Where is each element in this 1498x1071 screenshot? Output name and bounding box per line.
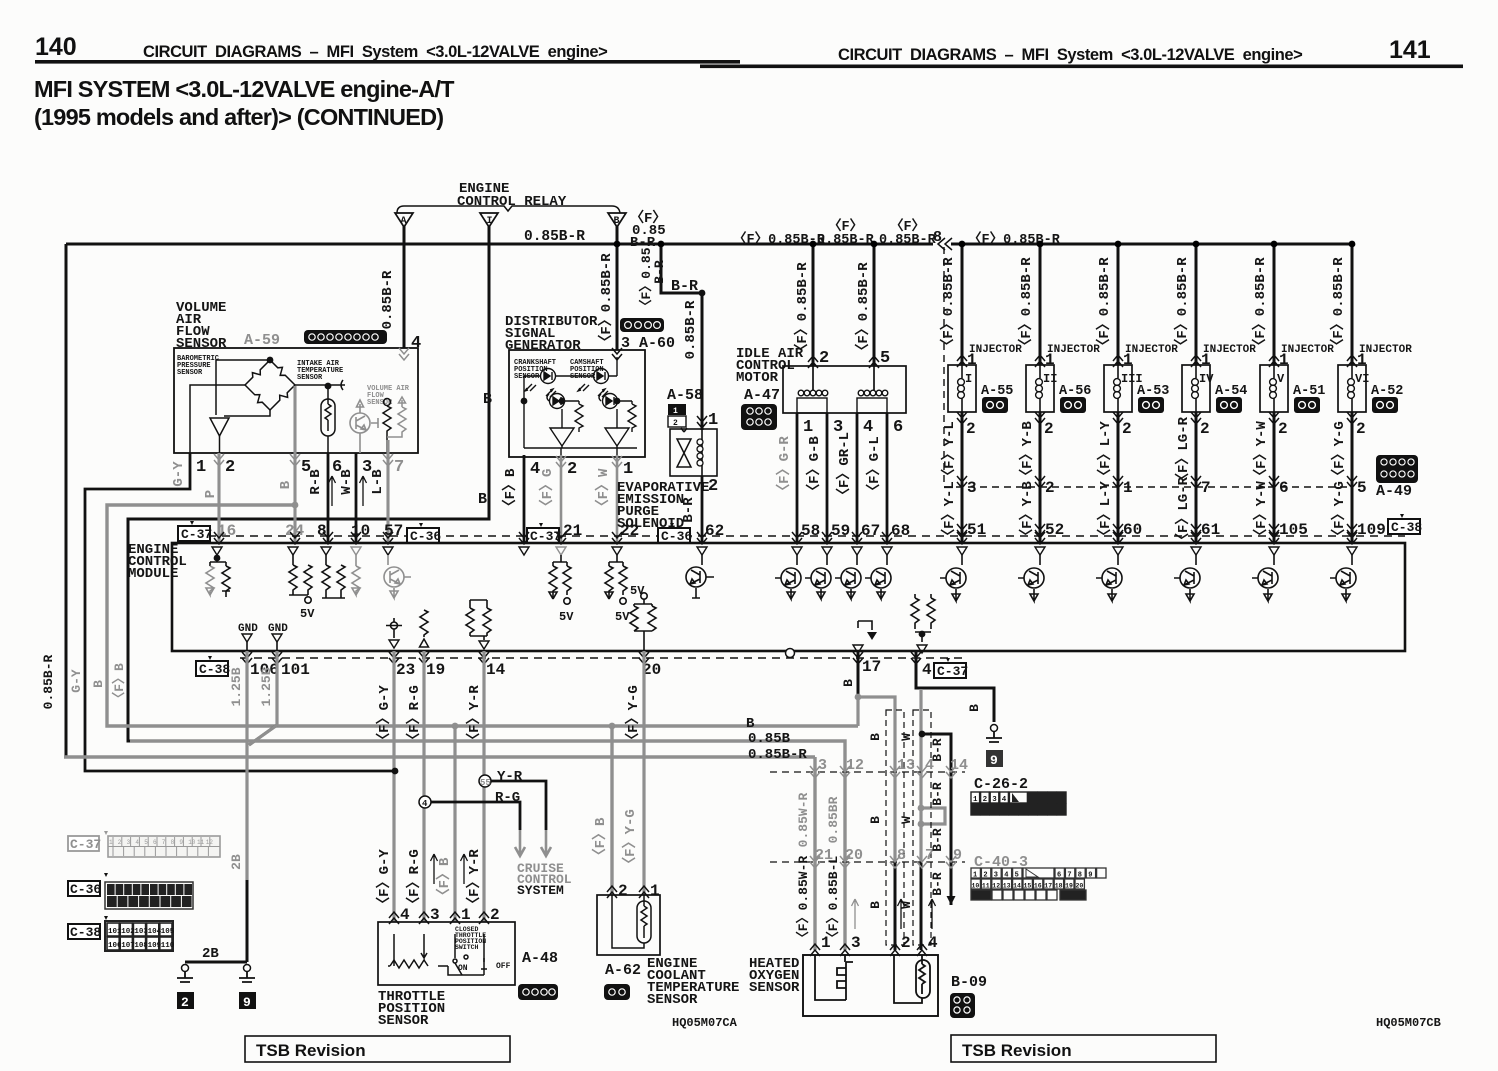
svg-text:C-38: C-38 [1391,520,1422,535]
svg-text:5V: 5V [300,607,315,621]
svg-text:C-26-2: C-26-2 [974,776,1028,793]
svg-text:A-47: A-47 [744,387,780,404]
svg-text:13: 13 [1003,883,1011,890]
svg-text:B-09: B-09 [951,974,987,991]
svg-text:3: 3 [818,757,827,774]
svg-text:VI: VI [1355,372,1369,386]
svg-text:0.85B-R: 0.85B-R [41,654,56,709]
svg-text:G-Y: G-Y [69,669,84,693]
svg-text:102: 102 [121,928,135,936]
svg-text:2: 2 [983,872,987,880]
svg-text:〈F〉0.85B-R: 〈F〉0.85B-R [1174,257,1191,353]
svg-text:108: 108 [134,942,148,950]
svg-text:0.85B-R: 0.85B-R [879,233,937,248]
svg-text:3: 3 [851,934,861,952]
svg-text:5: 5 [880,349,890,368]
svg-text:W-B: W-B [339,469,355,495]
svg-text:5V: 5V [559,610,574,624]
svg-text:A-55: A-55 [981,384,1013,399]
svg-text:1: 1 [803,418,813,437]
svg-text:10: 10 [351,522,370,540]
svg-text:1: 1 [973,872,977,880]
svg-text:B-R: B-R [930,872,945,896]
svg-text:1: 1 [673,407,678,416]
svg-text:B: B [967,704,982,712]
svg-text:4: 4 [928,934,938,952]
svg-text:R-G: R-G [495,790,520,806]
svg-text:〈F〉Y-L: 〈F〉Y-L [941,421,958,483]
svg-text:〈F〉L-Y: 〈F〉L-Y [1097,481,1114,543]
svg-text:〈F〉Y-G: 〈F〉Y-G [625,685,642,747]
svg-text:2: 2 [901,934,911,952]
svg-text:SENSOR: SENSOR [176,336,227,352]
svg-text:HQ05M07CA: HQ05M07CA [672,1016,738,1030]
svg-text:A-51: A-51 [1293,384,1325,399]
svg-text:3: 3 [994,872,998,880]
svg-text:SENSOR: SENSOR [378,1013,429,1029]
svg-text:IV: IV [1199,372,1214,386]
svg-text:2: 2 [983,796,988,804]
svg-text:SENSOR: SENSOR [647,992,698,1008]
svg-text:2: 2 [618,882,628,900]
svg-text:1.25B: 1.25B [229,667,244,706]
svg-text:23: 23 [396,661,415,679]
svg-text:〈F〉0.85B-R: 〈F〉0.85B-R [1330,257,1347,353]
svg-text:〈F〉0.85B-R: 〈F〉0.85B-R [855,262,872,358]
svg-text:11: 11 [197,839,205,846]
svg-text:〈F〉Y-W: 〈F〉Y-W [1253,421,1270,483]
svg-text:2: 2 [1122,420,1132,438]
svg-text:TSB Revision: TSB Revision [256,1041,366,1060]
svg-text:〈F〉0.85B-R: 〈F〉0.85B-R [598,253,615,349]
svg-text:〈F〉L-Y: 〈F〉L-Y [1097,421,1114,483]
svg-text:1: 1 [196,458,206,477]
svg-text:〈F〉G-L: 〈F〉G-L [866,436,883,498]
svg-text:INJECTOR: INJECTOR [1281,344,1334,356]
svg-text:INJECTOR: INJECTOR [1125,344,1178,356]
svg-text:5: 5 [1357,479,1367,497]
svg-text:2B: 2B [229,854,244,870]
svg-text:0.85B-R: 0.85B-R [380,270,396,329]
svg-text:10: 10 [188,839,196,846]
svg-text:I: I [487,216,493,227]
svg-text:1: 1 [623,460,633,479]
svg-text:MFI SYSTEM <3.0L-12VALVE engin: MFI SYSTEM <3.0L-12VALVE engine-A/T [34,76,455,102]
svg-text:C-36: C-36 [70,882,101,897]
svg-text:5V: 5V [615,610,630,624]
svg-text:12: 12 [846,757,864,774]
svg-text:18: 18 [1055,883,1063,890]
svg-text:9: 9 [179,839,183,846]
svg-text:B: B [841,679,856,687]
svg-text:4: 4 [922,661,932,679]
svg-text:B: B [746,716,755,732]
svg-text:0.85W-R: 0.85W-R [796,792,811,847]
svg-text:3: 3 [967,479,977,497]
svg-text:C-38: C-38 [70,925,101,940]
svg-text:A-49: A-49 [1376,483,1412,500]
svg-text:A-52: A-52 [1371,384,1403,399]
svg-text:〈F〉0.85B-R: 〈F〉0.85B-R [1018,257,1035,353]
svg-text:3: 3 [127,839,131,846]
svg-text:17: 17 [862,658,881,676]
svg-text:INJECTOR: INJECTOR [1359,344,1412,356]
svg-text:〈F〉B: 〈F〉B [111,663,127,705]
svg-text:INJECTOR: INJECTOR [1047,344,1100,356]
svg-text:8: 8 [171,839,175,846]
svg-text:20: 20 [1076,883,1084,890]
svg-text:2: 2 [1278,420,1288,438]
svg-text:8: 8 [1078,872,1082,880]
svg-text:2: 2 [118,839,122,846]
svg-text:C-37: C-37 [937,664,968,679]
svg-text:20: 20 [845,847,863,864]
svg-text:1: 1 [708,411,718,430]
svg-text:19: 19 [1065,883,1073,890]
svg-text:6: 6 [1057,872,1061,880]
svg-text:4: 4 [411,334,421,353]
svg-text:4: 4 [863,418,873,437]
svg-text:SYSTEM: SYSTEM [517,883,564,898]
svg-text:A-54: A-54 [1215,384,1247,399]
svg-text:ON: ON [458,964,468,973]
svg-text:〈F〉0.85B-R: 〈F〉0.85B-R [1252,257,1269,353]
svg-text:C-37: C-37 [181,527,212,542]
svg-text:〈F〉G-Y: 〈F〉G-Y [376,849,393,911]
svg-text:SENSOR: SENSOR [749,980,800,996]
svg-text:14: 14 [486,661,506,679]
svg-text:4: 4 [400,906,410,924]
svg-text:2: 2 [567,460,577,479]
svg-text:2: 2 [225,458,235,477]
svg-text:7: 7 [1067,872,1071,880]
svg-text:〈F〉Y-R: 〈F〉Y-R [466,685,483,747]
svg-text:〈F〉B: 〈F〉B [436,857,453,902]
svg-text:67: 67 [861,522,880,540]
svg-text:55: 55 [480,778,491,788]
svg-text:C-38: C-38 [199,662,230,677]
svg-text:A-59: A-59 [244,332,280,349]
svg-text:〈F〉G-Y: 〈F〉G-Y [376,685,393,747]
svg-text:〈F〉Y-B: 〈F〉Y-B [1019,421,1036,483]
svg-text:5V: 5V [630,584,645,598]
svg-text:141: 141 [1389,36,1431,64]
svg-text:109: 109 [148,942,162,950]
svg-text:9: 9 [990,753,998,768]
svg-text:MOTOR: MOTOR [736,370,779,386]
svg-text:101: 101 [108,928,122,936]
svg-text:11: 11 [982,883,990,890]
svg-text:21: 21 [563,522,582,540]
svg-text:B: B [868,733,883,741]
svg-text:12: 12 [206,839,214,846]
svg-text:〈F〉R-G: 〈F〉R-G [406,685,423,747]
svg-text:B-R: B-R [930,738,945,762]
svg-text:GND: GND [238,623,258,635]
svg-text:105: 105 [161,928,175,936]
svg-text:TSB Revision: TSB Revision [962,1041,1072,1060]
svg-text:〈F〉0.85B-R: 〈F〉0.85B-R [940,257,957,353]
svg-text:4: 4 [1002,796,1007,804]
svg-text:110: 110 [161,942,175,950]
svg-text:8: 8 [897,847,906,864]
svg-text:L-B: L-B [370,469,386,495]
svg-text:〈F〉Y-G: 〈F〉Y-G [622,809,639,871]
svg-text:W: W [899,816,914,824]
svg-text:CONTROL RELAY: CONTROL RELAY [457,194,567,210]
svg-text:101: 101 [281,661,310,679]
svg-text:58: 58 [801,522,820,540]
svg-text:7: 7 [1201,479,1211,497]
svg-text:7: 7 [162,839,166,846]
svg-text:107: 107 [121,942,135,950]
svg-text:9: 9 [953,847,962,864]
svg-text:104: 104 [148,928,162,936]
svg-text:8: 8 [317,522,327,540]
svg-text:12: 12 [992,883,1000,890]
svg-text:6: 6 [1279,479,1289,497]
svg-text:1: 1 [109,839,113,846]
svg-text:B: B [483,391,492,408]
svg-text:3: 3 [992,796,997,804]
svg-text:15: 15 [1024,883,1032,890]
svg-text:〈F〉B: 〈F〉B [592,817,609,862]
svg-text:I: I [965,372,972,386]
svg-text:R-B: R-B [308,469,324,495]
svg-text:B: B [868,816,883,824]
svg-text:INJECTOR: INJECTOR [969,344,1022,356]
svg-text:1.25B: 1.25B [259,667,274,706]
svg-text:Y-R: Y-R [497,769,523,785]
svg-text:A: A [401,216,407,227]
svg-text:〈F〉G: 〈F〉G [539,469,556,514]
svg-text:OFF: OFF [496,962,511,971]
svg-text:68: 68 [891,522,910,540]
svg-text:C-37: C-37 [70,837,101,852]
svg-text:〈F〉Y-W: 〈F〉Y-W [1253,481,1270,543]
svg-text:〈F〉Y-B: 〈F〉Y-B [1019,481,1036,543]
svg-text:1: 1 [973,796,978,804]
svg-text:7: 7 [394,458,404,477]
svg-text:0.85BR: 0.85BR [826,796,841,843]
svg-text:1: 1 [821,934,831,952]
svg-text:2: 2 [1045,479,1055,497]
svg-text:〈F〉W: 〈F〉W [595,468,612,513]
svg-text:A-56: A-56 [1059,384,1091,399]
svg-text:HQ05M07CB: HQ05M07CB [1376,1016,1441,1030]
svg-text:〈F〉LG-R: 〈F〉LG-R [1175,416,1192,487]
svg-text:0.85B-R: 0.85B-R [748,747,807,763]
svg-text:13: 13 [897,757,915,774]
svg-text:4: 4 [135,839,139,846]
svg-text:0.85B-R: 0.85B-R [817,233,875,248]
svg-text:〈F〉0.85B-L: 〈F〉0.85B-L [825,856,841,945]
svg-text:B-R: B-R [930,828,945,852]
svg-text:〈F〉B: 〈F〉B [502,468,519,513]
svg-text:2: 2 [708,477,718,496]
svg-text:SENSOR: SENSOR [297,374,323,382]
svg-text:2B: 2B [202,946,219,962]
svg-text:B: B [278,480,294,489]
svg-text:62: 62 [705,522,724,540]
svg-text:SENSOR: SENSOR [570,373,596,381]
svg-text:2: 2 [181,995,189,1010]
svg-text:5: 5 [1015,872,1019,880]
svg-text:0.85B: 0.85B [748,731,791,747]
svg-text:G-Y: G-Y [171,461,187,487]
svg-text:〈F〉Y-L: 〈F〉Y-L [941,481,958,543]
svg-text:16: 16 [1034,883,1042,890]
svg-text:6: 6 [893,418,903,437]
svg-text:B: B [478,491,487,508]
svg-text:SWITCH: SWITCH [455,944,479,951]
svg-text:19: 19 [426,661,445,679]
svg-text:140: 140 [35,33,77,61]
svg-text:59: 59 [831,522,850,540]
svg-text:4: 4 [530,460,540,479]
svg-text:10: 10 [972,883,980,890]
svg-text:A-58: A-58 [667,387,703,404]
svg-text:B-R: B-R [652,260,667,284]
svg-text:B-R: B-R [681,497,697,523]
svg-text:0.85B-R: 0.85B-R [683,300,699,359]
svg-text:5: 5 [144,839,148,846]
svg-text:B-R: B-R [930,782,945,806]
svg-text:(1995 models and after)> (CONT: (1995 models and after)> (CONTINUED) [34,104,443,130]
svg-text:〈F〉Y-R: 〈F〉Y-R [466,849,483,911]
svg-text:9: 9 [243,995,251,1010]
svg-text:P: P [203,490,219,498]
svg-text:〈F〉R-G: 〈F〉R-G [406,849,423,911]
svg-text:SENSOR: SENSOR [514,373,540,381]
svg-text:B: B [614,216,620,227]
svg-text:CIRCUIT DIAGRAMS – MFI Sys: CIRCUIT DIAGRAMS – MFI System <3.0L-12VA… [838,46,1302,64]
svg-text:〈F〉0.85B-R: 〈F〉0.85B-R [968,231,1061,248]
svg-text:1: 1 [650,882,660,900]
svg-text:B-R: B-R [671,278,698,295]
svg-text:〈F〉GR-L: 〈F〉GR-L [836,432,853,502]
svg-text:2: 2 [1044,420,1054,438]
svg-text:A-53: A-53 [1137,384,1169,399]
svg-text:1: 1 [1123,479,1133,497]
svg-text:〈F〉0.85B-R: 〈F〉0.85B-R [794,262,811,358]
svg-text:14: 14 [950,757,968,774]
svg-text:INJECTOR: INJECTOR [1203,344,1256,356]
svg-text:6: 6 [153,839,157,846]
svg-text:22: 22 [620,522,639,540]
svg-text:2: 2 [1356,420,1366,438]
svg-text:〈F〉G-B: 〈F〉G-B [806,436,823,498]
svg-text:GENERATOR: GENERATOR [505,338,581,354]
svg-text:2: 2 [490,906,500,924]
svg-text:〈F〉G-R: 〈F〉G-R [776,436,793,498]
svg-text:GND: GND [268,623,288,635]
svg-text:〈F〉0.85W-R: 〈F〉0.85W-R [795,856,811,945]
svg-text:SENSOR: SENSOR [177,369,203,377]
svg-text:A-62: A-62 [605,962,641,979]
svg-text:〈F〉0.85B-R: 〈F〉0.85B-R [1096,257,1113,353]
svg-text:2: 2 [673,419,678,428]
svg-text:106: 106 [108,942,122,950]
svg-text:9: 9 [1088,872,1092,880]
svg-text:A-48: A-48 [522,950,558,967]
svg-text:W: W [899,733,914,741]
svg-text:2: 2 [1200,420,1210,438]
svg-text:B: B [868,901,883,909]
svg-text:2: 2 [966,420,976,438]
svg-text:B: B [91,680,106,688]
svg-text:3: 3 [430,906,440,924]
svg-text:103: 103 [134,928,148,936]
svg-text:II: II [1043,372,1057,386]
svg-text:CIRCUIT DIAGRAMS – MFI Sys: CIRCUIT DIAGRAMS – MFI System <3.0L-12VA… [143,43,607,61]
svg-text:V: V [1277,372,1285,386]
svg-text:14: 14 [1013,883,1021,890]
svg-text:1: 1 [461,906,471,924]
svg-text:4: 4 [1004,872,1008,880]
svg-text:2: 2 [819,349,829,368]
svg-text:〈F〉Y-G: 〈F〉Y-G [1331,481,1348,543]
svg-text:4: 4 [422,799,428,809]
svg-text:17: 17 [1044,883,1052,890]
svg-text:0.85B-R: 0.85B-R [524,229,585,245]
svg-text:〈F〉Y-G: 〈F〉Y-G [1331,421,1348,483]
